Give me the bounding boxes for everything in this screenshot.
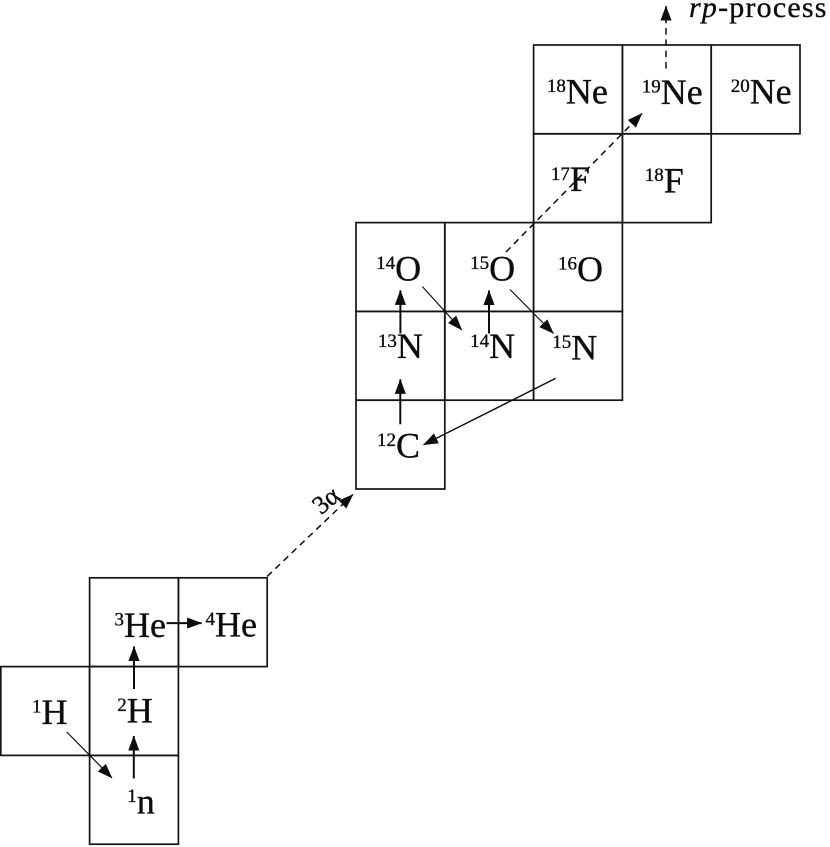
box 15N [534,311,623,400]
svg-text:14N: 14N [470,326,515,366]
box 16O [534,223,623,312]
arrow 13N to 14O [399,290,401,333]
arrow 12C to 13N [399,379,401,424]
box 13N [356,311,445,400]
box 18Ne [534,45,623,134]
box 14N [445,311,534,400]
svg-text:15O: 15O [470,249,515,289]
box 20Ne [711,45,800,134]
svg-text:2H: 2H [117,690,153,730]
box 12C [356,400,445,489]
svg-text:15N: 15N [552,327,597,367]
svg-text:17F: 17F [551,159,590,199]
box 4He [178,578,267,667]
svg-text:20Ne: 20Ne [731,71,792,111]
arrow 15N to 12C [424,378,556,445]
arrow 2H to 3He [133,647,135,690]
box 2H [90,667,179,756]
arrow 1n to 2H [133,736,135,779]
svg-text:19Ne: 19Ne [642,72,703,112]
svg-text:rp-process: rp-process [689,0,828,24]
arrow 1H to 1n [67,732,112,778]
dashed arrow 3-alpha 4He to 12C [267,495,353,577]
arrow 14N to 15O [488,291,490,334]
svg-text:1n: 1n [127,781,155,821]
box 15O [445,223,534,312]
svg-text:18Ne: 18Ne [547,71,608,111]
box 3He [90,578,179,667]
box 1H [1,667,90,756]
dashed arrow 19Ne to rp-process [665,6,667,69]
svg-text:14O: 14O [376,249,421,289]
box 18F [622,134,711,223]
box 14O [356,223,445,312]
box 17F [534,134,623,223]
box 19Ne [622,45,711,134]
svg-text:3α: 3α [306,480,345,520]
arrow 3He to 4He [167,622,202,624]
svg-text:16O: 16O [558,249,603,289]
svg-text:4He: 4He [206,605,257,645]
dashed arrow 15O to 19Ne [506,114,642,253]
svg-text:18F: 18F [645,160,684,200]
arrow 14O to 14N [422,287,461,330]
svg-text:3He: 3He [115,605,166,645]
box 1n [90,755,179,844]
svg-text:12C: 12C [377,425,420,465]
arrow 15O to 15N [510,290,554,334]
svg-text:1H: 1H [32,692,68,732]
